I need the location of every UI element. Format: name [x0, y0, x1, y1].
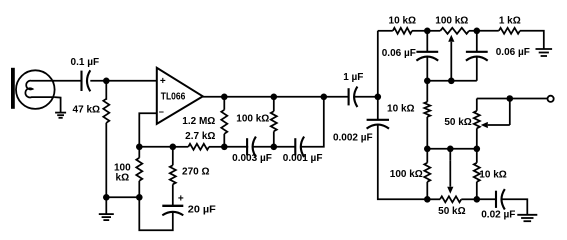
- wire top rail C-D: [274, 96, 324, 98]
- wire op-amp minus input: [139, 113, 157, 147]
- svg-text:10 kΩ: 10 kΩ: [479, 169, 506, 180]
- resistor R4 2.7 kOhm: [188, 144, 209, 150]
- node S junction: [474, 146, 481, 153]
- wire C4 up to node D: [301, 97, 324, 147]
- resistor R3 100 kOhm mid: [273, 97, 275, 112]
- wire VR1 to node M: [469, 30, 477, 32]
- wire top rail D to C5: [324, 96, 349, 98]
- wire op-amp output: [203, 96, 225, 98]
- wire C8 to rail2 end: [476, 57, 478, 81]
- wire C6 to bottom rail: [378, 125, 428, 200]
- node L junction: [424, 28, 431, 35]
- wire node K up to top rail: [377, 31, 379, 97]
- wire rail3 R-S: [450, 148, 477, 150]
- potentiometer VR1 100 kOhm: [440, 28, 469, 34]
- microphone MIC1 body: [16, 70, 55, 109]
- svg-text:100 kΩ: 100 kΩ: [435, 15, 468, 26]
- wire VR2 top to output: [477, 98, 510, 100]
- svg-text:10 kΩ: 10 kΩ: [389, 15, 416, 26]
- potentiometer VR2 50 kOhm: [476, 99, 478, 111]
- svg-text:50 kΩ: 50 kΩ: [444, 117, 471, 128]
- node U junction: [424, 196, 431, 203]
- capacitor C2 20 uF electrolytic: [162, 205, 183, 207]
- node Q junction: [424, 146, 431, 153]
- wire top rail start: [378, 30, 393, 32]
- svg-text:1.2 MΩ: 1.2 MΩ: [182, 116, 215, 127]
- wire node A to op-amp +: [106, 80, 157, 82]
- svg-text:+: +: [178, 193, 184, 204]
- svg-text:1 µF: 1 µF: [343, 72, 363, 83]
- svg-text:0.003 µF: 0.003 µF: [232, 153, 272, 164]
- node E junction (minus rail left): [136, 144, 143, 151]
- svg-text:100 kΩ: 100 kΩ: [390, 169, 423, 180]
- resistor R10 100 kOhm: [426, 149, 428, 163]
- wire rail2 O-P: [451, 80, 477, 82]
- capacitor C1 0.1 uF: [80, 71, 82, 91]
- svg-text:2.7 kΩ: 2.7 kΩ: [185, 131, 215, 142]
- wire node M to C8: [476, 31, 478, 52]
- svg-text:+: +: [160, 76, 166, 87]
- wire node T to output terminal: [510, 98, 548, 100]
- node C junction: [271, 94, 278, 101]
- capacitor C5 1 uF: [348, 88, 350, 105]
- wire node L to VR1: [427, 30, 440, 32]
- wire rail4 U to VR3: [427, 198, 440, 200]
- node G junction: [103, 194, 110, 201]
- svg-text:0.1 µF: 0.1 µF: [71, 57, 100, 68]
- wire R4 to node H: [209, 146, 224, 148]
- svg-text:0.06 µF: 0.06 µF: [496, 47, 530, 58]
- potentiometer VR1 wiper: [450, 42, 452, 81]
- ground left: [99, 213, 114, 215]
- ground mic: [55, 112, 66, 114]
- node O junction (wiper tap): [448, 78, 455, 85]
- resistor R5 100 kOhm: [138, 147, 140, 158]
- wire node H to C3: [224, 146, 248, 148]
- wire rail3 Q-R: [427, 148, 450, 150]
- node J junction: [136, 194, 143, 201]
- wire C3 to node I: [253, 146, 274, 148]
- wire node I to C4: [274, 146, 296, 148]
- node A junction: [103, 78, 110, 85]
- svg-text:1 kΩ: 1 kΩ: [499, 15, 521, 26]
- svg-text:100 kΩ: 100 kΩ: [236, 113, 269, 124]
- wire rail E-F: [139, 146, 173, 148]
- wire node G to node J: [106, 196, 139, 198]
- wire C9 to ground: [502, 199, 528, 214]
- node T junction: [507, 95, 514, 102]
- svg-text:TL066: TL066: [161, 91, 186, 103]
- wire mic to C1: [53, 80, 81, 82]
- wire R8 to ground: [520, 31, 544, 49]
- wire ground stem: [105, 197, 107, 214]
- wire R7 to node L: [412, 30, 427, 32]
- resistor R7 10 kOhm: [393, 28, 412, 34]
- wire node A down to R1: [105, 81, 107, 100]
- microphone MIC1 element: [25, 81, 54, 98]
- capacitor C8 0.06 uF: [466, 51, 488, 53]
- wire node M to R8: [477, 30, 499, 32]
- resistor R6 270 Ohm: [172, 147, 174, 166]
- node R junction: [447, 146, 454, 153]
- resistor R2 1.2 MOhm: [223, 97, 225, 110]
- node K junction: [375, 94, 382, 101]
- node B junction (output): [221, 94, 228, 101]
- svg-text:0.001 µF: 0.001 µF: [283, 153, 323, 164]
- wire mic lower terminal to ground: [54, 97, 60, 112]
- ground bottom right: [517, 214, 537, 216]
- svg-text:50 kΩ: 50 kΩ: [438, 206, 465, 217]
- capacitor C9 0.02 uF: [495, 191, 497, 208]
- wire VR3 to node V: [461, 198, 477, 200]
- wire rail F to R4: [173, 146, 189, 148]
- svg-text:20 µF: 20 µF: [188, 204, 216, 215]
- wire C5 to node K: [354, 96, 378, 98]
- svg-text:10 kΩ: 10 kΩ: [387, 103, 414, 114]
- node N junction: [424, 78, 431, 85]
- wire node V to C9: [477, 198, 496, 200]
- resistor R8 1 kOhm: [499, 28, 520, 34]
- wire node K down to C6: [377, 97, 379, 120]
- node D junction: [321, 94, 328, 101]
- output terminal: [548, 96, 554, 102]
- capacitor C7 0.06 uF: [416, 51, 438, 53]
- resistor R1 47 kOhm: [103, 99, 109, 123]
- node M junction: [474, 28, 481, 35]
- wire R1 to ground node: [105, 123, 107, 198]
- wire C1 to node A: [90, 80, 106, 82]
- potentiometer VR3 wiper: [449, 149, 451, 161]
- wire node L to C7: [426, 31, 428, 52]
- svg-text:270 Ω: 270 Ω: [182, 166, 209, 177]
- microphone MIC1 diaphragm bar: [11, 68, 15, 109]
- capacitor C4 0.001 uF: [294, 138, 296, 155]
- wire rail2 N-O: [427, 80, 451, 82]
- svg-text:−: −: [159, 107, 164, 117]
- svg-text:0.002 µF: 0.002 µF: [333, 132, 373, 143]
- capacitor C6 0.002 uF: [367, 119, 389, 121]
- svg-text:kΩ: kΩ: [116, 172, 130, 183]
- svg-text:0.06 µF: 0.06 µF: [382, 48, 416, 59]
- potentiometer VR3 50 kOhm: [440, 196, 461, 202]
- node H junction: [221, 144, 228, 151]
- wire C7 to node N: [426, 57, 428, 81]
- wire C2 bottom loop: [139, 197, 173, 230]
- resistor R9 10 kOhm: [426, 81, 428, 102]
- resistor R11 10 kOhm: [476, 149, 478, 163]
- svg-text:47 kΩ: 47 kΩ: [73, 104, 100, 115]
- node V junction: [474, 196, 481, 203]
- potentiometer VR2 wiper: [509, 99, 511, 126]
- op-amp U1 TL066 triangle: [157, 68, 203, 124]
- ground top right: [536, 48, 553, 50]
- node F junction: [170, 144, 177, 151]
- node I junction: [271, 144, 278, 151]
- svg-text:0.02 µF: 0.02 µF: [481, 209, 515, 220]
- capacitor C3 0.003 uF: [246, 138, 248, 155]
- wire top rail B-C: [224, 96, 273, 98]
